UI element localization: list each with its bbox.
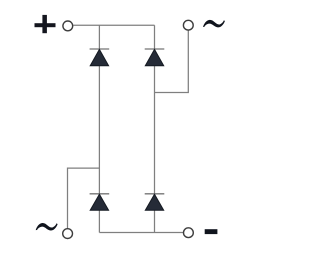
wire: top rail (+ terminal to top of column B) — [73, 24, 154, 26]
terminal: ~ AC input (bottom-left circle) — [63, 229, 73, 239]
terminal: - DC output (bottom-right circle) — [184, 228, 194, 238]
wire: right column B (top rail through D2 and D4 to bottom rail) — [154, 25, 156, 232]
label: tilde symbol top-right — [203, 20, 225, 27]
terminal: + DC output (top-left circle) — [63, 21, 73, 31]
label: plus symbol — [35, 15, 56, 33]
wire: AC link from top-right ~ terminal down then left to column B midpoint junction — [155, 30, 189, 92]
diode D1 (top-left, cathode bar at top) — [90, 49, 110, 66]
diode D2 (top-right, cathode bar at top) — [145, 49, 165, 66]
wire: bottom rail (bottom of column A to - terminal) — [99, 232, 183, 234]
label: tilde symbol bottom-left — [36, 223, 58, 230]
label: minus symbol — [205, 229, 218, 234]
wire: AC link from column A midpoint junction left then down to bottom-left ~ terminal — [68, 168, 100, 229]
diode D4 (bottom-right, cathode bar at top) — [145, 194, 165, 211]
diode D3 (bottom-left, cathode bar at top) — [90, 194, 110, 211]
wire: left column A (top rail through D1 and D3 to bottom rail) — [98, 25, 100, 232]
terminal: ~ AC input (top-right circle) — [183, 20, 193, 30]
